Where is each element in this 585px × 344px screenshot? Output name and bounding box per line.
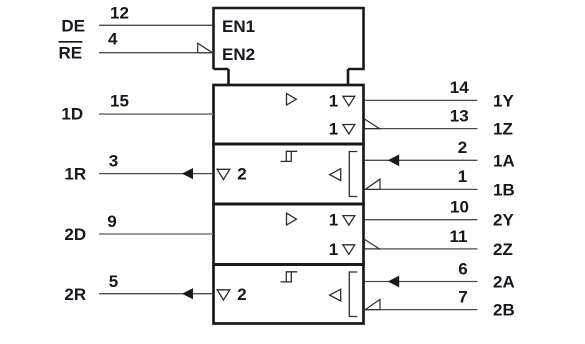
svg-text:1: 1: [329, 211, 338, 230]
svg-text:1: 1: [458, 167, 467, 186]
inverting-output flag on 1Z: [365, 119, 380, 129]
svg-text:6: 6: [458, 260, 467, 279]
svg-text:15: 15: [110, 92, 129, 111]
svg-text:7: 7: [458, 288, 467, 307]
svg-text:1: 1: [329, 120, 338, 139]
receiver R1 down-triangle: [217, 169, 230, 179]
svg-text:2A: 2A: [493, 273, 515, 292]
arrowhead 1R (points left, output): [182, 168, 193, 179]
svg-text:13: 13: [450, 107, 469, 126]
wire 1D input: [99, 113, 213, 115]
wire DE to EN1: [99, 24, 213, 26]
wire 1Z output: [365, 128, 478, 130]
svg-text:2: 2: [458, 138, 467, 157]
svg-text:5: 5: [109, 272, 118, 291]
inverting-output flag on 2Z: [365, 239, 380, 249]
inverting-input flag on 2B: [365, 299, 380, 309]
svg-text:2Z: 2Z: [493, 240, 513, 259]
svg-text:2D: 2D: [64, 225, 86, 244]
arrowhead 2A (points left, into receiver): [388, 276, 399, 288]
svg-text:1Z: 1Z: [493, 120, 513, 139]
receiver R1 hysteresis symbol: [281, 151, 298, 161]
svg-text:1A: 1A: [493, 151, 515, 170]
svg-text:2: 2: [237, 285, 246, 304]
section divider 3 (driver2/receiver2): [212, 263, 365, 266]
svg-text:9: 9: [107, 212, 116, 231]
notch right (neck between enable block and main block): [347, 69, 350, 85]
driver D1 buffer triangle: [287, 94, 297, 106]
section divider 1 (driver1/receiver1): [212, 143, 365, 146]
wire 1B input: [365, 188, 478, 190]
notch left (neck between enable block and main block): [227, 69, 230, 85]
wire RE to EN2: [99, 52, 213, 54]
arrowhead 1A (points left, into receiver): [388, 154, 399, 166]
receiver R2 input bracket: [349, 272, 357, 317]
receiver R1 input bracket: [349, 152, 357, 197]
wire 2D input: [99, 233, 213, 235]
svg-text:14: 14: [450, 78, 469, 97]
svg-text:1D: 1D: [61, 105, 83, 124]
driver D1 down-triangle (row 1Y): [343, 96, 355, 106]
driver D2 down-triangle (row 2Y): [343, 216, 355, 226]
inverting-input flag on EN2 (RE active low): [198, 43, 213, 53]
svg-text:2: 2: [237, 165, 246, 184]
svg-text:EN1: EN1: [222, 17, 255, 36]
wire 2Z output: [365, 248, 478, 250]
svg-text:2Y: 2Y: [493, 211, 514, 230]
svg-text:10: 10: [450, 198, 469, 217]
svg-text:11: 11: [450, 227, 468, 246]
svg-text:1Y: 1Y: [493, 91, 514, 110]
wire 2Y output: [365, 219, 478, 221]
arrowhead 2R (points left, output): [182, 288, 193, 299]
receiver R2 buffer triangle (points left): [330, 289, 341, 301]
receiver R2 down-triangle: [217, 290, 230, 300]
wire 2B input: [365, 309, 478, 311]
wire 2A input: [365, 281, 478, 283]
wire 1Y output: [365, 99, 478, 101]
wire 2R output: [99, 293, 213, 295]
enable block U1 (EN1/EN2 box): [214, 8, 364, 69]
inverting-input flag on 1B: [365, 179, 380, 189]
svg-text:1B: 1B: [493, 180, 515, 199]
svg-text:3: 3: [109, 152, 118, 171]
svg-text:12: 12: [110, 3, 129, 22]
driver D2 buffer triangle: [287, 213, 297, 225]
svg-text:EN2: EN2: [222, 45, 255, 64]
svg-text:2B: 2B: [493, 301, 515, 320]
wire 1A input: [365, 159, 478, 161]
driver D2 down-triangle (row 2Z): [343, 245, 355, 255]
svg-text:1: 1: [329, 240, 338, 259]
svg-text:1: 1: [329, 91, 338, 110]
section divider 2 (receiver1/driver2): [212, 203, 365, 206]
svg-text:DE: DE: [61, 16, 85, 35]
svg-text:RE: RE: [58, 44, 82, 63]
svg-text:4: 4: [108, 30, 118, 49]
driver D1 down-triangle (row 1Z): [343, 125, 355, 135]
svg-text:2R: 2R: [64, 285, 86, 304]
svg-text:1R: 1R: [64, 165, 86, 184]
receiver R1 buffer triangle (points left): [330, 169, 341, 181]
wire 1R output: [99, 173, 213, 175]
main block outline: [214, 85, 364, 324]
receiver R2 hysteresis symbol: [281, 272, 298, 282]
RE overbar: [59, 41, 83, 43]
